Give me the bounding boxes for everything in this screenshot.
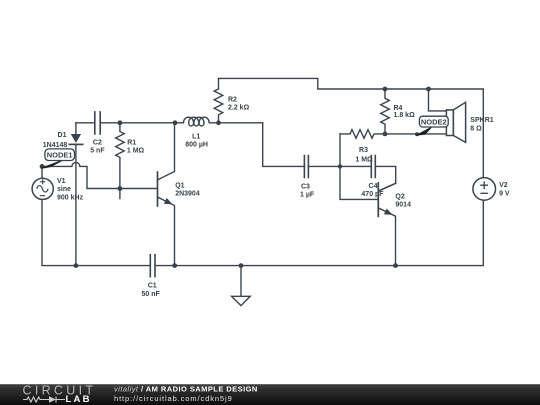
svg-text:900 kHz: 900 kHz — [57, 195, 84, 202]
svg-text:C2: C2 — [93, 139, 102, 146]
svg-text:1N4148: 1N4148 — [43, 142, 68, 149]
svg-text:C3: C3 — [301, 184, 310, 191]
svg-text:8 Ω: 8 Ω — [470, 125, 482, 132]
svg-text:Q2: Q2 — [395, 193, 404, 200]
svg-text:2.2 kΩ: 2.2 kΩ — [228, 105, 250, 112]
svg-text:R4: R4 — [394, 105, 403, 112]
svg-text:R2: R2 — [228, 97, 237, 104]
svg-text:Q1: Q1 — [175, 182, 184, 189]
svg-text:SPKR1: SPKR1 — [470, 117, 493, 124]
svg-text:1.8 kΩ: 1.8 kΩ — [394, 112, 416, 119]
svg-text:5 nF: 5 nF — [90, 148, 105, 155]
svg-text:9 V: 9 V — [499, 190, 510, 197]
svg-text:C1: C1 — [148, 282, 157, 289]
svg-text:http://circuitlab.com/cdkn5j9: http://circuitlab.com/cdkn5j9 — [114, 394, 233, 403]
svg-text:2N3904: 2N3904 — [175, 190, 200, 197]
svg-text:50 nF: 50 nF — [142, 291, 161, 298]
svg-text:vitaliyt / AM RADIO SAMPLE DES: vitaliyt / AM RADIO SAMPLE DESIGN — [114, 385, 258, 394]
svg-text:800 µH: 800 µH — [185, 142, 208, 149]
svg-text:R1: R1 — [127, 139, 136, 146]
svg-text:NODE2: NODE2 — [421, 118, 447, 127]
svg-text:V1: V1 — [57, 178, 66, 185]
svg-text:1 µF: 1 µF — [300, 192, 315, 199]
svg-text:V2: V2 — [499, 182, 508, 189]
svg-text:L1: L1 — [192, 133, 200, 140]
svg-text:1 MΩ: 1 MΩ — [127, 148, 145, 155]
svg-text:C4: C4 — [369, 183, 378, 190]
svg-text:D1: D1 — [58, 132, 67, 139]
svg-text:NODE1: NODE1 — [47, 151, 73, 160]
svg-text:470 pF: 470 pF — [361, 191, 384, 198]
svg-text:9014: 9014 — [395, 202, 411, 209]
svg-text:1 MΩ: 1 MΩ — [355, 157, 373, 164]
svg-text:sine: sine — [57, 186, 71, 193]
svg-text:R3: R3 — [359, 147, 368, 154]
svg-text:LAB: LAB — [66, 394, 92, 405]
